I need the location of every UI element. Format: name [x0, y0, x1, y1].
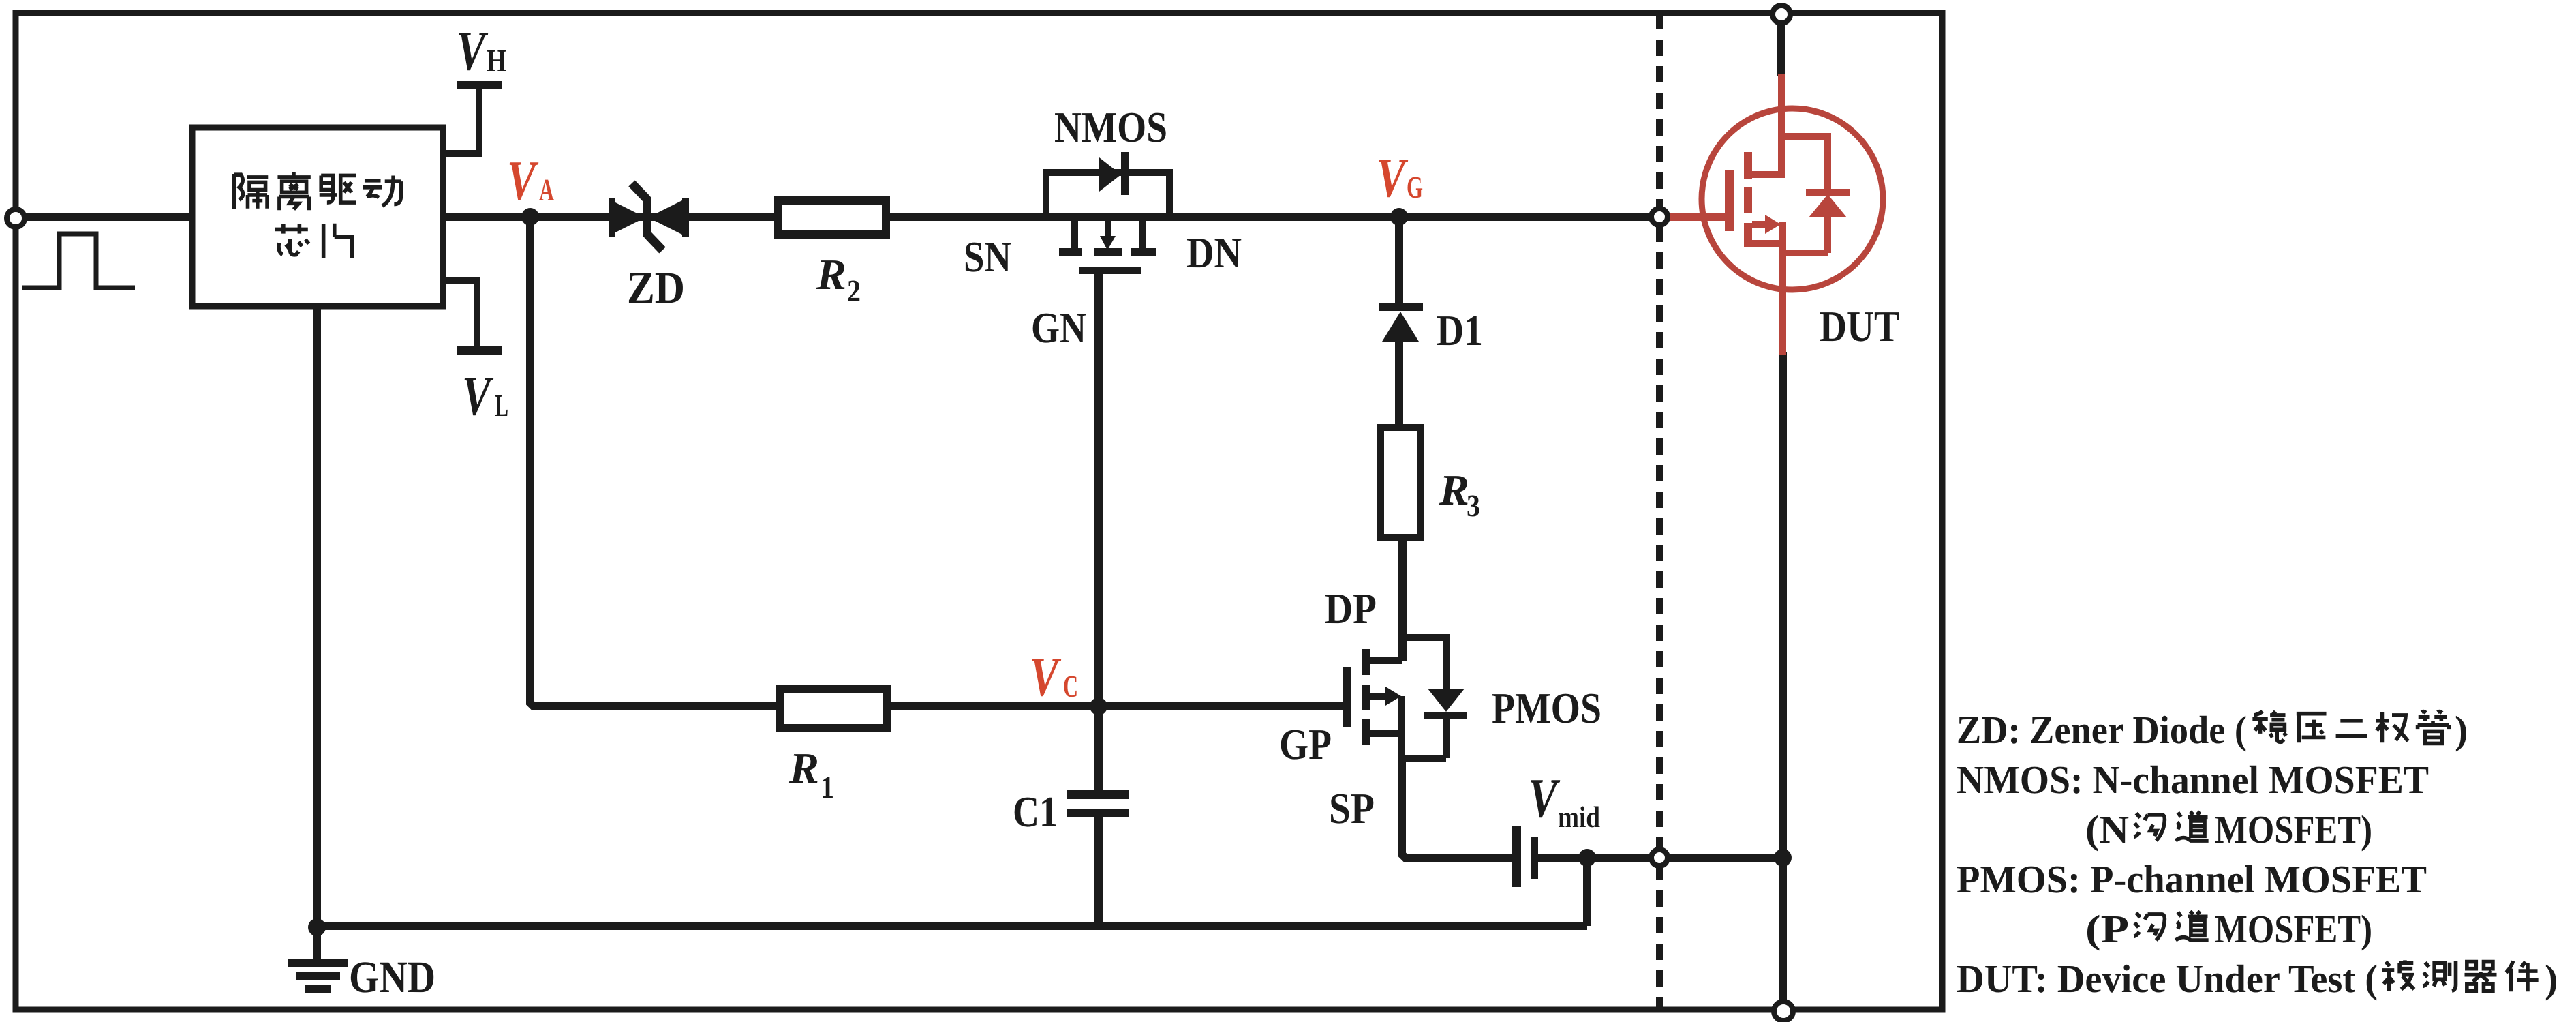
battery Vmid	[1512, 826, 1538, 887]
chip text 芯片	[275, 224, 352, 258]
input terminal circle	[7, 209, 25, 227]
wire: D1 cathode to R3 top	[1395, 341, 1403, 428]
svg-text:V: V	[462, 365, 494, 427]
wire: Vmid node down to bottom rail	[1583, 854, 1591, 926]
VH supply tap	[443, 85, 502, 153]
dashed line gate terminal circle	[1651, 209, 1668, 225]
DUT power MOSFET (red)	[1702, 74, 1883, 355]
top border terminal circle	[1773, 5, 1790, 23]
wire (red): dashed line to DUT gate	[1668, 213, 1726, 221]
wire: R3 bottom to PMOS drain DP	[1398, 537, 1407, 661]
wire: input terminal to driver chip	[16, 213, 192, 221]
node Vmid junction dot	[1578, 849, 1596, 867]
ground symbol GND	[288, 926, 348, 993]
NMOS transistor symbol	[1046, 172, 1169, 248]
svg-text:V: V	[457, 20, 489, 82]
svg-text:GN: GN	[1031, 303, 1086, 352]
svg-text:ZD: Zener Diode (: ZD: Zener Diode (	[1957, 708, 2247, 752]
svg-text:MOSFET): MOSFET)	[2215, 907, 2372, 951]
svg-text:ZD: ZD	[627, 263, 685, 313]
wire: dashed line to DUT source junction	[1667, 854, 1786, 862]
svg-text:): )	[2455, 708, 2468, 752]
driver chip U1 box 隔离驱动芯片	[192, 127, 443, 306]
wire: DUT drain from top border circle (black part)	[1777, 22, 1785, 76]
resistor R2	[778, 200, 886, 235]
wire: bottom ground rail	[313, 922, 1587, 930]
node DUT source junction dot	[1774, 849, 1792, 867]
node VA junction dot	[521, 208, 539, 226]
svg-text:R: R	[816, 250, 846, 299]
svg-text:PMOS: P-channel MOSFET: PMOS: P-channel MOSFET	[1957, 857, 2427, 901]
svg-text:NMOS: N-channel MOSFET: NMOS: N-channel MOSFET	[1957, 757, 2429, 802]
input pulse waveform symbol	[22, 234, 135, 288]
wire: PMOS source SP to Vmid battery	[1402, 757, 1512, 858]
resistor R1	[780, 689, 887, 728]
node VC junction dot	[1090, 697, 1107, 715]
bottom border terminal circle	[1774, 1002, 1793, 1021]
svg-text:MOSFET): MOSFET)	[2215, 807, 2372, 852]
svg-text:R: R	[788, 744, 819, 792]
PMOS transistor symbol	[1369, 637, 1446, 758]
wire: main gate-drive rail (chip output VA to ZD, R2, NMOS, VG, dashed line)	[443, 213, 1652, 221]
wire: VA node down to R1 row	[530, 217, 776, 706]
dashed line source terminal circle	[1651, 850, 1668, 866]
svg-text:DUT: DUT	[1820, 302, 1899, 350]
svg-text:GND: GND	[349, 952, 435, 1002]
svg-text:GP: GP	[1279, 720, 1332, 768]
svg-text:1: 1	[821, 770, 834, 805]
zener diode ZD (bidirectional)	[609, 183, 689, 250]
wire: R1 to VC node to PMOS gate GP	[891, 702, 1343, 710]
svg-text:PMOS: PMOS	[1492, 684, 1601, 732]
node VG junction dot	[1390, 208, 1408, 226]
svg-text:G: G	[1407, 170, 1423, 205]
svg-text:3: 3	[1467, 488, 1480, 523]
svg-text:L: L	[495, 388, 508, 423]
VL supply tap	[443, 280, 502, 350]
wire: NMOS gate GN down through VC node to C1	[1094, 274, 1103, 791]
svg-text:V: V	[1529, 767, 1561, 829]
svg-text:(N: (N	[2085, 807, 2129, 852]
diode D1	[1379, 303, 1423, 342]
svg-text:V: V	[1377, 147, 1409, 209]
wire: chip ground pin down to GND node	[313, 306, 321, 926]
svg-text:DP: DP	[1325, 584, 1377, 633]
svg-text:DUT: Device Under Test (: DUT: Device Under Test (	[1957, 957, 2378, 1001]
svg-text:C1: C1	[1013, 787, 1058, 836]
svg-text:C: C	[1063, 669, 1078, 704]
wire: Vmid battery to node and to DUT source row	[1538, 854, 1652, 862]
svg-text:SN: SN	[964, 232, 1011, 281]
svg-text:SP: SP	[1329, 784, 1375, 832]
svg-text:(P: (P	[2085, 907, 2129, 951]
node GND junction dot	[308, 918, 326, 936]
svg-text:V: V	[507, 149, 539, 211]
capacitor C1	[1067, 790, 1129, 817]
svg-text:mid: mid	[1558, 800, 1600, 834]
dashed isolation boundary line	[1656, 13, 1663, 1010]
svg-text:D1: D1	[1437, 306, 1483, 355]
resistor R3	[1381, 427, 1421, 537]
svg-text:NMOS: NMOS	[1054, 103, 1167, 151]
chip text 隔离驱动	[234, 172, 401, 210]
svg-text:DN: DN	[1186, 228, 1242, 277]
svg-text:2: 2	[847, 273, 861, 308]
svg-text:A: A	[539, 172, 554, 207]
wire: C1 bottom to bottom rail	[1094, 817, 1103, 926]
svg-text:V: V	[1030, 646, 1062, 708]
svg-text:): )	[2545, 957, 2558, 1001]
wire: VG node down to D1 anode	[1395, 217, 1403, 304]
wire: DUT source down to bottom border circle (black part)	[1779, 352, 1787, 1002]
outer border frame	[16, 13, 1942, 1010]
svg-text:R: R	[1439, 466, 1469, 514]
svg-text:H: H	[487, 43, 506, 78]
